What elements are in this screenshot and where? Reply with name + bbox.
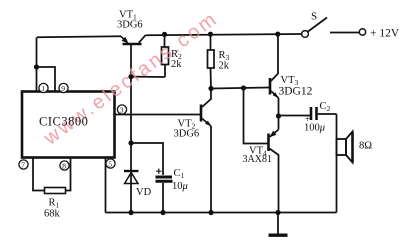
svg-text:2k: 2k [219, 61, 230, 72]
node output [276, 113, 281, 118]
wire R2 bottom to VT1 base [131, 76, 165, 78]
pin 5 [106, 159, 115, 168]
svg-text:3DG12: 3DG12 [279, 86, 313, 98]
node rail-VT2e [208, 210, 213, 215]
svg-text:3AX81: 3AX81 [243, 154, 272, 165]
node junction pin1/pin9 [34, 64, 39, 69]
wire left drop to pins [36, 37, 38, 91]
svg-text:3DG6: 3DG6 [174, 129, 200, 140]
wire pin9 branch [37, 67, 56, 92]
svg-text:7: 7 [21, 161, 25, 170]
wire base net to VT3/VT4 [211, 88, 269, 89]
wire pin5 drop [105, 158, 107, 213]
wire C1 branch [131, 143, 163, 175]
wire pin3 to VT2 base [115, 114, 201, 116]
node rail-VT3 [275, 31, 280, 36]
pin 9 [59, 83, 68, 92]
wire bottom rail [106, 212, 337, 214]
resistor R2 [162, 34, 169, 77]
pin 1 [39, 83, 48, 92]
node rail-R2 [162, 32, 167, 37]
svg-text:3DG6: 3DG6 [117, 20, 143, 31]
wire output to C2 [279, 115, 311, 117]
svg-text:8: 8 [62, 162, 66, 171]
svg-text:C1: C1 [174, 168, 185, 180]
svg-text:10μ: 10μ [172, 181, 188, 192]
svg-text:9: 9 [61, 84, 65, 93]
svg-text:VD: VD [136, 187, 152, 198]
wire VT4 base branch [244, 88, 268, 144]
transistor VT1 [121, 35, 146, 44]
wire VT1 base vertical [130, 45, 132, 171]
node C1 branch [128, 140, 133, 145]
diode VD [124, 171, 139, 213]
node base branch [241, 85, 246, 90]
node rail-VD [128, 210, 133, 215]
svg-text:+ 12V: + 12V [370, 28, 400, 40]
pin 7 [19, 160, 28, 169]
switch S [302, 18, 366, 38]
svg-text:8Ω: 8Ω [359, 141, 372, 152]
wire top-left rail [37, 36, 121, 37]
svg-text:S: S [311, 11, 317, 23]
transistor VT2 [201, 89, 211, 213]
capacitor C1 [156, 169, 173, 213]
pin 3 [117, 105, 126, 114]
wire speaker drop [336, 114, 338, 213]
node rail-R3 [208, 32, 213, 37]
pin 8 [60, 161, 69, 170]
svg-text:1: 1 [41, 84, 45, 93]
node VT2 collector / R3 [208, 86, 213, 91]
node rail-gnd [275, 210, 280, 215]
transistor VT3 [270, 34, 279, 116]
node rail-C1 [160, 210, 165, 215]
svg-text:C2: C2 [320, 101, 331, 113]
IC U1 CIC3800 box [22, 92, 115, 158]
speaker LS [337, 132, 353, 163]
ground [269, 213, 288, 236]
svg-text:5: 5 [108, 160, 112, 169]
svg-text:68k: 68k [44, 209, 61, 220]
svg-text:100μ: 100μ [304, 123, 325, 134]
transistor VT4 [269, 116, 279, 213]
capacitor C2 [311, 107, 337, 120]
wire top rail right [146, 34, 302, 35]
node VT1 base/R2 [128, 74, 133, 79]
resistor R3 [208, 34, 215, 88]
svg-text:2k: 2k [171, 59, 182, 70]
svg-text:3: 3 [120, 106, 124, 115]
svg-text:CIC3800: CIC3800 [39, 115, 88, 129]
resistor R1 loop [33, 158, 71, 194]
